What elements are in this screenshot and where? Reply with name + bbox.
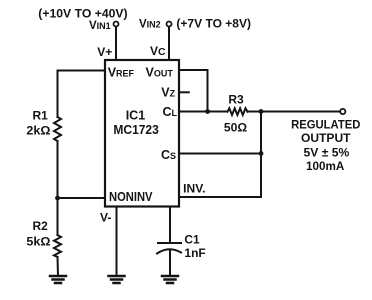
svg-text:R1: R1	[33, 109, 49, 123]
svg-text:V-: V-	[100, 210, 111, 224]
svg-text:1nF: 1nF	[184, 246, 205, 260]
terminal regulated output	[340, 109, 345, 114]
terminal VIN2	[167, 22, 172, 27]
wire R2 to ground	[57, 257, 60, 276]
svg-text:(+10V TO +40V): (+10V TO +40V)	[38, 7, 127, 21]
wire feedback branch vertical	[260, 112, 262, 198]
ground below R2	[50, 276, 66, 283]
svg-text:(+7V TO +8V): (+7V TO +8V)	[176, 17, 251, 31]
wire VIN1 to V+ pin	[115, 27, 117, 61]
ground below C1	[162, 276, 178, 283]
svg-text:VREF: VREF	[108, 65, 135, 79]
wire left rail upper segment	[57, 71, 59, 118]
resistor R2	[54, 235, 61, 257]
wire left rail middle segment	[57, 141, 59, 235]
svg-text:CL: CL	[163, 105, 178, 119]
wire VIN2 to VC pin	[168, 27, 170, 61]
svg-text:2kΩ: 2kΩ	[26, 123, 50, 137]
terminal VIN1	[114, 22, 119, 27]
svg-text:VIN1: VIN1	[89, 20, 111, 32]
svg-text:5V ± 5%: 5V ± 5%	[304, 148, 350, 160]
node junction VOUT/CL	[205, 109, 210, 114]
resistor R3	[228, 108, 248, 115]
resistor R1	[54, 117, 61, 141]
svg-text:C1: C1	[184, 233, 200, 247]
svg-text:VZ: VZ	[161, 86, 175, 100]
IC IC1 MC1723 body	[105, 60, 179, 207]
wire VREF pin to left rail	[58, 70, 106, 72]
svg-text:MC1723: MC1723	[113, 123, 158, 137]
wire C1 to ground	[169, 251, 171, 277]
svg-text:R2: R2	[33, 219, 49, 233]
svg-text:CS: CS	[161, 148, 176, 162]
wire NONINV pin to rail	[58, 197, 106, 199]
svg-text:VC: VC	[150, 44, 166, 58]
wire VOUT pin to CL node	[179, 70, 208, 112]
wire CL pin to R3	[179, 111, 228, 113]
ground below V-	[109, 276, 125, 283]
svg-text:REGULATED: REGULATED	[291, 120, 360, 132]
svg-text:IC1: IC1	[126, 108, 146, 122]
svg-text:VIN2: VIN2	[139, 19, 161, 31]
svg-text:50Ω: 50Ω	[224, 121, 248, 135]
capacitor C1	[158, 242, 181, 244]
svg-text:V+: V+	[97, 45, 112, 59]
node junction output branch	[259, 109, 264, 114]
wire INV pin to branch	[179, 196, 261, 198]
wire R3 to output terminal	[248, 111, 341, 113]
svg-text:VOUT: VOUT	[146, 65, 174, 79]
wire VZ stub	[179, 91, 189, 93]
svg-text:R3: R3	[228, 93, 244, 107]
node junction rail/NONINV	[55, 196, 60, 201]
wire CS pin to branch	[179, 153, 261, 155]
svg-text:100mA: 100mA	[306, 161, 344, 173]
svg-text:INV.: INV.	[183, 184, 205, 196]
wire comp pin to C1	[169, 207, 171, 244]
svg-text:NONINV: NONINV	[109, 190, 153, 204]
wire V- pin to ground	[116, 207, 118, 277]
svg-text:OUTPUT: OUTPUT	[301, 133, 351, 145]
svg-text:5kΩ: 5kΩ	[26, 235, 50, 249]
node junction CS/branch	[259, 151, 264, 156]
